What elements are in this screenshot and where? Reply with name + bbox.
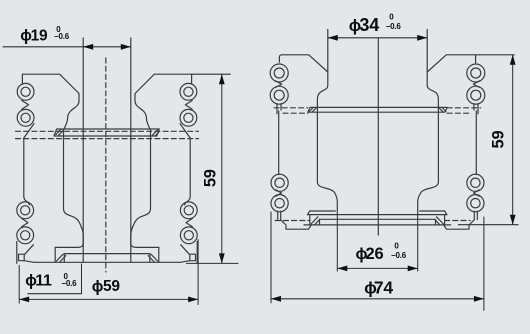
dim phi34 line (328, 37, 427, 39)
arrow phi34 right (417, 35, 427, 41)
dim phi74 extension left (270, 212, 272, 304)
barrel side right with bottom S-jog (418, 100, 439, 215)
circle bottom-right 2 inner (471, 199, 480, 208)
upper flange hidden dashes right (447, 108, 480, 113)
svg-text:59: 59 (201, 169, 219, 187)
svg-text:59: 59 (103, 278, 120, 295)
circle top-left 2 inner (274, 90, 284, 100)
centerline dashed (105, 58, 107, 272)
dim phi26 extension right (417, 214, 419, 271)
svg-text:11: 11 (35, 273, 52, 290)
right strip wedge between top circles (473, 81, 479, 88)
svg-text:−0.6: −0.6 (54, 32, 70, 41)
right strip wedge between bottom circles (474, 190, 480, 196)
circle bottom-left 1 inner (275, 178, 284, 187)
upper flange hidden dashes left (274, 108, 308, 113)
right strip stem below top circles (477, 104, 479, 114)
dim 59 right bottom extension (458, 224, 519, 226)
arrow 59 right bottom (510, 215, 516, 225)
circle bottom-left 1 outer (17, 202, 34, 219)
circle bottom-left 2 inner (21, 231, 30, 240)
circle top-right 1 outer (180, 83, 197, 100)
top wing right: top edge chamfer face S-curve (135, 74, 192, 129)
circle bottom-right 2 outer (180, 227, 197, 244)
left foot diagonal upper (25, 245, 34, 255)
bottom flange top edge (308, 214, 447, 216)
arrow phi19 left (83, 44, 93, 50)
svg-text:0: 0 (394, 241, 399, 250)
svg-text:0: 0 (389, 13, 394, 22)
svg-text:−0.6: −0.6 (61, 279, 77, 288)
bottom flange left end vertical (54, 247, 56, 262)
wing face and S-curve right (427, 30, 438, 100)
dim 59 left top extension (192, 73, 231, 75)
bottom flange hatch left (57, 254, 66, 263)
circle bottom-left 1 outer (271, 174, 288, 191)
bottom flange plate top edge (64, 253, 150, 255)
arrow 59 right top (510, 55, 516, 65)
left strip wedge between bottom circles (22, 218, 28, 226)
dim phi26 line (337, 267, 417, 269)
tube wall right (130, 38, 132, 262)
left strip taper diagonal below top circles (24, 124, 34, 138)
circle top-right 2 inner (184, 113, 193, 122)
circle top-right 2 inner (471, 90, 481, 100)
circle top-left 1 inner (21, 87, 30, 96)
circle top-left 1 outer (270, 64, 288, 82)
svg-text:19: 19 (31, 27, 48, 44)
dim phi11 leader underline (27, 264, 81, 294)
left foot square (19, 254, 25, 261)
svg-text:−0.6: −0.6 (391, 251, 407, 260)
circle bottom-left 2 outer (17, 227, 34, 244)
dim phi26 extension left (336, 214, 338, 271)
arrow phi59 right (188, 297, 198, 303)
bottom flange rim top right (420, 210, 445, 212)
upper flange hidden line 2 dashed (16, 138, 199, 140)
barrel side left with S-jog (55, 129, 83, 247)
circle top-left 2 outer (17, 109, 34, 126)
circle bottom-right 1 inner (184, 206, 193, 215)
circle bottom-left 2 outer (271, 195, 288, 212)
dim phi59 extension left (18, 265, 20, 304)
circle top-left 2 inner (21, 113, 30, 122)
left strip wedge between bottom circles (276, 190, 282, 196)
right foot (444, 220, 475, 229)
svg-text:−0.6: −0.6 (386, 22, 402, 31)
arrow 59 left top (219, 74, 225, 84)
right strip lower stem b (473, 211, 475, 219)
dim phi59 extension right (197, 239, 199, 305)
right strip wedge between top circles (185, 101, 192, 110)
right strip outer lower vertical (196, 242, 198, 264)
dim phi74 line (271, 298, 484, 300)
left strip wedge between top circles (275, 81, 281, 88)
right strip mid vertical (185, 138, 191, 205)
left strip outer edge upper (21, 74, 23, 83)
bottom flange plate inner top edge (320, 218, 436, 220)
top wing right: top edge chamfer extension (427, 55, 514, 72)
svg-text:ϕ: ϕ (92, 278, 104, 295)
right foot square (190, 254, 196, 261)
svg-text:34: 34 (359, 15, 379, 35)
left strip lower stem a (277, 211, 279, 219)
circle top-right 2 outer (467, 86, 485, 104)
right strip mid vertical (475, 111, 477, 175)
upper flange hatch right (152, 130, 159, 136)
circle top-right 1 inner (471, 68, 481, 78)
bottom dashed right (445, 220, 470, 222)
bottom flange hatch right (148, 254, 157, 263)
circle top-right 1 inner (184, 87, 193, 96)
left strip stem below top circles b (280, 104, 282, 110)
right foot diagonal upper (181, 245, 190, 255)
top wing left: top edge chamfer face S-curve (22, 74, 79, 129)
circle bottom-left 2 inner (275, 199, 284, 208)
arrow phi74 right (474, 296, 484, 302)
circle bottom-right 2 outer (467, 195, 484, 212)
arrow phi59 left (19, 297, 29, 303)
right strip stem below top circles b (473, 104, 475, 110)
upper flange hatch left (309, 108, 316, 112)
arrow 59 left bottom (219, 253, 225, 263)
svg-text:59: 59 (490, 131, 508, 149)
circle top-left 1 inner (274, 68, 284, 78)
circle top-right 1 outer (467, 64, 485, 82)
arrow phi26 right (408, 266, 418, 272)
left strip mid vertical (278, 111, 280, 175)
bottom flange hatch right block (435, 215, 445, 225)
dim 59 left bottom extension (186, 262, 239, 264)
arrow phi19 right (121, 44, 131, 50)
svg-text:26: 26 (366, 245, 384, 263)
arrow phi34 left (328, 35, 338, 41)
circle bottom-right 1 inner (471, 178, 480, 187)
bottom flange bottom edge extended (304, 224, 451, 226)
circle top-right 2 outer (180, 109, 197, 126)
circle bottom-right 2 inner (184, 231, 193, 240)
top wing left: corner top edge chamfer (279, 55, 327, 72)
upper flange hatch left (56, 129, 63, 135)
svg-text:74: 74 (374, 277, 394, 297)
dim phi19 line with text leader (3, 46, 131, 48)
upper flange hatch right (439, 108, 446, 112)
left strip outer lower vertical (16, 242, 18, 264)
left foot diagonal lower (24, 261, 34, 263)
tube wall left (82, 38, 84, 262)
left strip stem below top circles (276, 104, 278, 114)
circle top-left 2 outer (270, 86, 288, 104)
bottom flange right end chamfer (445, 211, 447, 215)
upper flange bar outline (308, 107, 447, 112)
arrow phi74 left (271, 296, 281, 302)
dim 59 left line (221, 74, 223, 263)
right strip top tick (475, 55, 477, 63)
circle bottom-right 1 outer (180, 202, 197, 219)
left strip mid vertical (24, 138, 30, 205)
bottom flange hatch left block (310, 215, 320, 225)
left foot (281, 220, 312, 229)
right foot diagonal lower (180, 261, 190, 263)
bottom flange left end chamfer (308, 211, 310, 215)
bottom dashed left (275, 220, 310, 222)
circle bottom-right 1 outer (467, 174, 484, 191)
right strip lower stem a (476, 211, 478, 219)
barrel side left with bottom S-jog (317, 100, 337, 215)
upper flange hidden line 1 dashed (16, 130, 199, 132)
left strip lower stem b (280, 211, 282, 219)
dim phi59 line (19, 298, 198, 300)
left strip wedge between top circles (22, 101, 29, 110)
dim 59 right line (512, 55, 514, 225)
right strip wedge between bottom circles (186, 218, 192, 226)
circle bottom-left 1 inner (21, 206, 30, 215)
dim phi74 extension right (483, 217, 485, 311)
arrow phi26 left (337, 266, 347, 272)
right strip taper diagonal below top circles (180, 124, 190, 138)
wing face and S-curve left (317, 30, 327, 100)
upper flange bar outline (54, 129, 159, 136)
circle top-left 1 outer (17, 83, 34, 100)
barrel side right with S-jog (131, 129, 159, 247)
bottom flange rim top left (310, 210, 336, 212)
bottom flange bottom edge (34, 261, 180, 263)
center line (377, 38, 379, 235)
right strip outer edge upper (191, 74, 193, 83)
bottom flange right end vertical (158, 247, 160, 262)
